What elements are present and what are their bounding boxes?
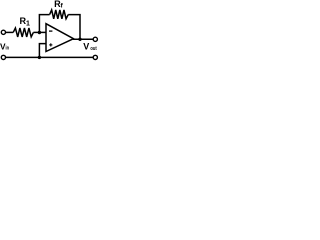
svg-text:V: V <box>83 41 89 51</box>
svg-text:1: 1 <box>26 21 30 28</box>
svg-text:f: f <box>61 3 64 10</box>
svg-text:out: out <box>90 46 96 52</box>
svg-text:in: in <box>6 46 10 52</box>
